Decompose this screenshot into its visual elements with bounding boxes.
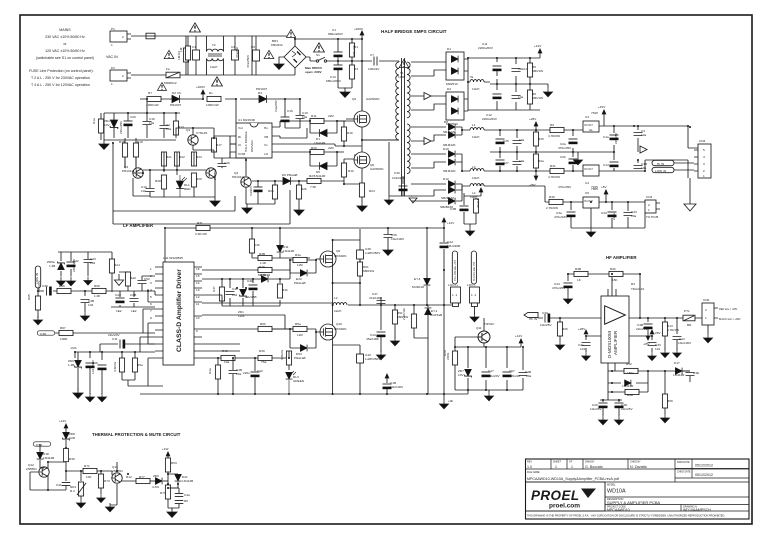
ground Q5 [150, 177, 215, 197]
wire HF feedback top [568, 274, 640, 318]
capacitor C44 HF [564, 283, 573, 288]
resistor R58 [625, 389, 639, 394]
-28V stub right [629, 330, 654, 352]
resistor R2a [533, 154, 538, 168]
svg-text:C2b: C2b [560, 155, 566, 159]
svg-text:1: 1 [111, 43, 113, 47]
svg-text:10u/100V: 10u/100V [678, 341, 692, 345]
resistor R3b [249, 239, 254, 253]
svg-text:C42: C42 [257, 369, 263, 373]
svg-text:IRF640N: IRF640N [334, 327, 346, 331]
ground R26c [294, 206, 304, 216]
svg-text:1N414R: 1N414R [314, 174, 326, 178]
svg-text:7815: 7815 [591, 111, 598, 115]
svg-text:open: 230V: open: 230V [305, 70, 322, 74]
svg-text:3.3K/W: 3.3K/W [113, 362, 117, 372]
svg-text:or: or [63, 42, 67, 46]
ground C44 [564, 295, 573, 304]
warning triangle near transformer [399, 59, 409, 67]
IC U6 D-MOS100M box [601, 296, 629, 363]
resistor R62b [258, 326, 272, 331]
stadium label C3D thermal [33, 442, 51, 446]
svg-text:LF AMPLIFIER: LF AMPLIFIER [123, 223, 154, 228]
capacitor C32 [254, 187, 263, 192]
+15V arrow [602, 110, 606, 126]
resistor R13 [173, 121, 178, 135]
svg-text:P1: P1 [111, 27, 115, 31]
wire thermal mid [66, 471, 112, 481]
svg-text:LO: LO [264, 152, 269, 156]
+28V stub left [584, 330, 601, 352]
warning triangle near bridge top [286, 30, 295, 38]
svg-text:102: 102 [88, 303, 93, 307]
resistor R13h [662, 322, 667, 336]
svg-text:10a: 10a [141, 189, 146, 193]
svg-text:CAB: CAB [130, 293, 136, 297]
capacitor C47 [377, 301, 386, 304]
diode D43 [261, 276, 268, 283]
capacitor C4x [234, 36, 236, 75]
svg-text:C1d: C1d [603, 163, 609, 167]
capacitor C2a [569, 139, 578, 144]
U11 pin stubs left [155, 267, 163, 358]
svg-text:R4: R4 [631, 282, 635, 286]
+12V arrow secondary [538, 49, 542, 58]
svg-text:68K/1W: 68K/1W [532, 96, 543, 100]
resistor R5 [527, 63, 532, 77]
svg-text:R11: R11 [311, 114, 317, 118]
svg-text:12: 12 [196, 295, 200, 299]
svg-text:R24: R24 [369, 189, 375, 193]
svg-text:R5: R5 [184, 499, 188, 503]
tap arrow upper [424, 93, 431, 100]
svg-text:7.5K: 7.5K [310, 185, 317, 189]
svg-text:LOW IN: LOW IN [655, 169, 666, 173]
resistor R19 [133, 143, 138, 157]
capacitor C23 [513, 162, 522, 165]
diode pair D4 [446, 92, 464, 120]
wire driver mid cluster [202, 260, 290, 306]
svg-text:MBR120: MBR120 [258, 273, 270, 277]
svg-text:Rt: Rt [238, 135, 241, 139]
svg-text:R68: R68 [94, 284, 100, 288]
svg-text:D2 VC: D2 VC [172, 91, 182, 95]
capacitor C1 [334, 52, 343, 57]
-28V arrow [534, 171, 538, 180]
transformer T1 secondary winding upper [407, 62, 410, 118]
svg-text:C70: C70 [542, 311, 548, 315]
svg-text:C4a: C4a [184, 493, 190, 497]
capacitor C2 [160, 126, 169, 129]
tap arrow lower [424, 138, 431, 145]
fuse F1 [146, 33, 155, 39]
svg-text:T 4 A L - 250 V for 120VAC ope: T 4 A L - 250 V for 120VAC operation [31, 83, 90, 87]
resistor R3cs [473, 199, 478, 213]
ground C48 [81, 312, 90, 321]
grounds HF out [661, 349, 670, 357]
svg-text:PRa1aB: PRa1aB [294, 281, 306, 285]
svg-text:R67: R67 [60, 326, 66, 330]
svg-text:10a: 10a [236, 372, 241, 376]
resistor R28 [161, 175, 166, 189]
capacitor C33h [648, 343, 657, 346]
svg-text:220u/50: 220u/50 [614, 133, 618, 144]
wire Q12 [30, 462, 66, 490]
svg-text:+12V: +12V [59, 419, 67, 423]
resistor R72 [136, 478, 150, 483]
diode D8 [448, 124, 455, 131]
svg-text:R26: R26 [538, 137, 544, 141]
U1 pin stubs [214, 127, 280, 158]
resistor Rx [207, 96, 221, 101]
capacitor C32a [67, 262, 76, 267]
svg-text:+5V: +5V [601, 185, 608, 189]
svg-text:C27: C27 [503, 161, 509, 165]
svg-text:+12V: +12V [447, 221, 455, 225]
diode D17 [675, 368, 682, 375]
svg-text:CN3: CN3 [699, 139, 705, 143]
transformer T1 primary winding [396, 62, 399, 140]
svg-text:PR1007: PR1007 [256, 87, 267, 91]
svg-text:8: 8 [150, 316, 152, 320]
svg-text:(switchable see S1 on control: (switchable see S1 on control panel) [36, 56, 94, 60]
stadium label HI IN [652, 160, 674, 165]
ground mid rail [574, 156, 583, 165]
diode D21 [175, 474, 182, 481]
svg-text:BLACK wire = +0RV: BLACK wire = +0RV [719, 318, 741, 321]
svg-text:10a: 10a [166, 127, 171, 131]
transistor Q12 [39, 467, 49, 477]
diode EX3 [300, 345, 307, 352]
connector P2 [110, 70, 127, 81]
resistor R40a [258, 267, 272, 272]
svg-text:HF IN: HF IN [529, 317, 537, 321]
svg-text:220R: 220R [446, 352, 450, 360]
svg-text:10a: 10a [302, 115, 307, 119]
svg-text:D-MOS100M: D-MOS100M [607, 331, 612, 358]
svg-text:1N414R: 1N414R [314, 141, 326, 145]
svg-text:TIP41C: TIP41C [484, 322, 495, 326]
svg-text:G20N60C: G20N60C [366, 97, 381, 101]
svg-text:47a/100F: 47a/100F [369, 296, 382, 300]
inductor L3 [470, 169, 484, 171]
zener ZD1 [110, 120, 118, 129]
svg-text:CLASS-D Amplifier Driver: CLASS-D Amplifier Driver [176, 269, 183, 352]
warning triangle near bulk caps [314, 43, 325, 52]
stadium label LOUT- vertical [471, 251, 476, 284]
capacitor C3A [98, 365, 107, 370]
capacitor C1c [512, 96, 521, 99]
thermistor NR1 [78, 482, 83, 496]
connector J2 LOUT- [470, 287, 480, 303]
svg-text:4.7R/2W: 4.7R/2W [548, 175, 560, 179]
svg-text:HI IN: HI IN [657, 162, 664, 166]
capacitor C42 [251, 372, 260, 377]
svg-text:R47: R47 [212, 286, 216, 292]
capacitor CA2 [116, 298, 125, 303]
svg-text:C3d: C3d [601, 211, 607, 215]
svg-text:MPCAAWD10-WD10A_Supply&Amplifi: MPCAAWD10-WD10A_Supply&Amplifier_PCBA-re… [527, 477, 619, 481]
svg-text:4.3%: 4.3% [152, 485, 159, 489]
svg-text:1M: 1M [179, 47, 183, 52]
svg-text:R53: R53 [171, 461, 177, 465]
svg-text:2200u/63V: 2200u/63V [482, 117, 498, 121]
svg-text:1E2: 1E2 [116, 309, 122, 313]
wire feedback top [165, 228, 444, 262]
inductor L1 [470, 128, 484, 130]
wire Q3 connections [230, 158, 246, 176]
resistor R67 [59, 330, 73, 335]
diode D12 [448, 181, 455, 188]
svg-text:R22: R22 [179, 155, 185, 159]
wire Q10 source [140, 335, 468, 394]
svg-text:TDA2316: TDA2316 [631, 287, 644, 291]
svg-text:1E2: 1E2 [131, 309, 137, 313]
svg-text:L1: L1 [472, 123, 476, 127]
svg-text:THERMAL PROTECTION & MUTE CIRC: THERMAL PROTECTION & MUTE CIRCUIT [92, 432, 181, 437]
transistor Q13 [112, 473, 122, 483]
svg-text:3.3K/1W: 3.3K/1W [195, 232, 207, 236]
svg-text:R5a: R5a [295, 322, 301, 326]
svg-text:CN6: CN6 [703, 298, 709, 302]
resistor R4a gate [293, 257, 307, 262]
-0VA rail [75, 352, 155, 360]
svg-text:220u/25V: 220u/25V [119, 120, 123, 134]
svg-text:PRa1aB: PRa1aB [294, 356, 306, 360]
resistor R31 [550, 168, 564, 173]
svg-text:1N414R: 1N414R [673, 373, 685, 377]
capacitor C36 [384, 235, 393, 238]
svg-text:R73: R73 [104, 479, 110, 483]
capacitor D11 input [120, 340, 125, 349]
wire to R30 [549, 202, 583, 210]
resistor R17 [211, 138, 216, 152]
svg-text:R4a: R4a [208, 368, 212, 374]
svg-text:MODEL: MODEL [607, 484, 616, 487]
svg-text:S1: S1 [316, 53, 320, 57]
svg-text:+28V: +28V [578, 327, 586, 331]
ground J2 [470, 313, 479, 322]
capacitor C3a [567, 212, 576, 217]
svg-text:C7: C7 [370, 53, 374, 57]
diode EX2 [300, 270, 307, 277]
resistor R26c [296, 185, 301, 199]
svg-text:DWN BY: DWN BY [585, 461, 595, 464]
svg-text:10uH: 10uH [472, 135, 479, 139]
svg-text:-28V: -28V [654, 331, 661, 335]
capacitor C67 [503, 372, 512, 377]
+28V arrow [534, 122, 538, 130]
svg-text:C6: C6 [251, 45, 255, 49]
svg-text:R31: R31 [550, 164, 556, 168]
svg-text:C30: C30 [394, 171, 400, 175]
svg-text:R12: R12 [126, 475, 132, 479]
diode D12b [448, 187, 455, 194]
svg-text:REV: REV [527, 461, 532, 464]
capacitor C39 [47, 287, 52, 296]
junction dots [294, 38, 296, 40]
svg-text:U11 WS28525: U11 WS28525 [163, 256, 183, 260]
svg-text:05/12/2012: 05/12/2012 [695, 473, 713, 477]
svg-text:WD10AAMPSCH: WD10AAMPSCH [683, 508, 711, 512]
svg-text:R4B: R4B [575, 267, 581, 271]
svg-text:47a/250V: 47a/250V [246, 54, 250, 68]
svg-text:CHKD DATE: CHKD DATE [677, 471, 691, 474]
capacitor C29 [599, 403, 608, 408]
connector CN6 [702, 303, 714, 325]
ground C4d [377, 351, 386, 360]
svg-text:R4b: R4b [282, 288, 288, 292]
capacitor C13h [673, 337, 682, 340]
diode D3 [259, 95, 266, 103]
resistor R66 [57, 288, 71, 293]
svg-text:2: 2 [648, 203, 650, 207]
svg-text:C1a: C1a [603, 135, 609, 139]
capacitor C18 [383, 384, 392, 389]
svg-text:R16: R16 [347, 131, 353, 135]
resistor R9 [550, 127, 564, 132]
svg-text:1N414B: 1N414B [43, 456, 54, 460]
svg-text:45a/100F: 45a/100F [366, 337, 379, 341]
svg-text:C41: C41 [56, 483, 62, 487]
capacitor C19 [146, 189, 155, 192]
mosfet Q10 [320, 324, 336, 340]
wire LF input [38, 288, 155, 296]
svg-text:10a: 10a [149, 121, 154, 125]
wire 12V rails [468, 58, 548, 110]
resistor R75 [165, 458, 170, 472]
wire mid rail secondary [490, 130, 578, 171]
wire Q11 cluster [455, 318, 523, 392]
op-amp U6 triangle [605, 306, 626, 324]
svg-text:120 VAC ±10% 50/60 Hz: 120 VAC ±10% 50/60 Hz [45, 49, 85, 53]
capacitor C13 [334, 65, 343, 70]
ground at bridge [279, 57, 284, 60]
svg-text:R1a: R1a [92, 118, 96, 124]
svg-text:100R: 100R [60, 337, 68, 341]
resistor R40 bottom [221, 355, 235, 360]
resistor R4c [215, 365, 220, 379]
svg-text:D17: D17 [674, 361, 680, 365]
svg-text:470u/25V: 470u/25V [552, 286, 566, 290]
ground rail bottom [440, 400, 449, 409]
svg-text:680u/200V: 680u/200V [328, 32, 344, 36]
svg-text:22u/25B: 22u/25B [245, 295, 257, 299]
stadium label LOW IN [652, 167, 674, 172]
resistor R26 [533, 132, 538, 146]
resistor R22 [174, 152, 179, 166]
resistor R3c thermal [64, 448, 69, 461]
svg-text:R7: R7 [148, 91, 152, 95]
capacitor C30 center tap [402, 176, 404, 184]
resistor R71 [83, 468, 97, 473]
svg-text:WD10A: WD10A [607, 489, 626, 495]
wire R47 to box [128, 380, 163, 386]
svg-text:DRIVER: DRIVER [250, 140, 254, 152]
resistor R66h [557, 322, 562, 336]
svg-text:22u/25V: 22u/25V [636, 327, 648, 331]
svg-text:L2: L2 [334, 296, 338, 300]
svg-text:OF: OF [569, 461, 573, 464]
svg-text:1K: 1K [577, 278, 582, 282]
svg-text:C20: C20 [130, 115, 136, 119]
svg-text:4: 4 [703, 155, 705, 159]
ground CN6 [707, 325, 709, 334]
grounds HF bottom [599, 416, 608, 425]
svg-text:4.7R/1W: 4.7R/1W [667, 328, 679, 332]
svg-text:C3B: C3B [450, 207, 456, 211]
capacitor C44 rail [440, 243, 449, 248]
capacitor C33 [624, 213, 633, 216]
svg-text:FILE NAME: FILE NAME [527, 471, 540, 474]
svg-text:1: 1 [111, 82, 113, 86]
wire half-bridge node [362, 139, 399, 141]
warning triangle left of R2 [164, 50, 174, 58]
svg-text:RED wire = -0RV: RED wire = -0RV [719, 308, 738, 311]
resistor R5a [132, 358, 137, 372]
svg-text:Fa: Fa [166, 67, 170, 71]
resistor R2 [183, 48, 188, 62]
resistor R52 [411, 314, 416, 328]
resistor R6 [527, 90, 532, 104]
svg-text:22u/20V: 22u/20V [488, 374, 500, 378]
svg-text:1: 1 [150, 267, 152, 271]
resistor R46 [277, 284, 282, 298]
svg-text:12R: 12R [297, 333, 303, 337]
capacitor C16b [281, 117, 290, 122]
transistor Q5 [206, 168, 216, 178]
svg-text:+12V: +12V [534, 44, 542, 48]
svg-text:68K/1W: 68K/1W [352, 45, 356, 56]
stadium label LOUT+ vertical [452, 251, 457, 284]
svg-text:1.0: 1.0 [527, 465, 532, 469]
svg-text:KBU810: KBU810 [271, 43, 283, 47]
capacitor C2b [569, 159, 578, 164]
svg-text:+12V: +12V [515, 334, 523, 338]
grounds thermal left [77, 499, 86, 508]
svg-text:102 PAD2: 102 PAD2 [91, 360, 95, 374]
resistor R59 [662, 394, 667, 408]
svg-text:D12: D12 [443, 177, 449, 181]
svg-text:R59: R59 [667, 399, 673, 403]
svg-text:2.7R/2W: 2.7R/2W [546, 206, 558, 210]
bridge rectifier BR1 [284, 46, 306, 68]
wire U1 to gates [280, 121, 358, 155]
svg-text:-28V: -28V [529, 183, 536, 187]
svg-text:C25: C25 [503, 139, 509, 143]
zener ZD6 [75, 360, 82, 368]
LED DL1 [176, 181, 184, 188]
svg-text:680u/200V: 680u/200V [326, 79, 342, 83]
ground bulk caps [340, 88, 350, 98]
svg-text:1.4B: 1.4B [49, 264, 55, 268]
U11 pin stubs right [194, 267, 202, 358]
svg-text:1 .1: 1 .1 [452, 293, 457, 297]
resistor R62 [286, 351, 291, 365]
svg-text:Vs: Vs [264, 143, 268, 147]
svg-text:CA2: CA2 [115, 293, 121, 297]
resistor R48 [574, 271, 588, 276]
svg-text:1: 1 [705, 316, 707, 320]
resistor R7 [147, 96, 161, 101]
resistor R73 [98, 474, 103, 488]
capacitor C21 [513, 141, 522, 144]
capacitor C4B HF [644, 324, 653, 329]
resistor R3 [349, 65, 354, 79]
svg-text:IN OUT: IN OUT [584, 167, 593, 171]
svg-text:-0VA: -0VA [70, 346, 78, 350]
svg-text:C39: C39 [42, 284, 48, 288]
